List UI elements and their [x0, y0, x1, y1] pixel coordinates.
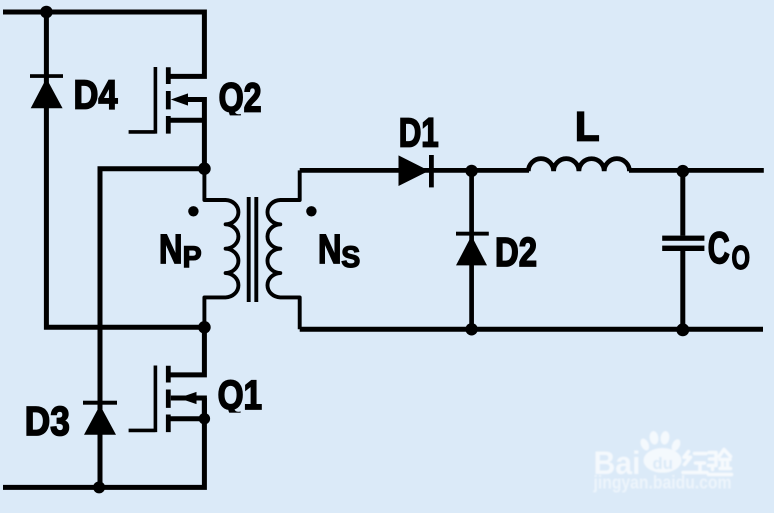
svg-text:D1: D1 — [399, 110, 439, 156]
svg-text:du: du — [653, 454, 674, 473]
svg-text:C: C — [708, 224, 730, 273]
svg-text:S: S — [341, 241, 360, 274]
svg-text:jingyan.baidu.com: jingyan.baidu.com — [593, 472, 732, 493]
svg-text:N: N — [159, 226, 183, 272]
svg-text:Q2: Q2 — [219, 75, 262, 121]
svg-text:L: L — [575, 104, 600, 150]
svg-text:D3: D3 — [25, 398, 70, 444]
svg-text:O: O — [732, 239, 751, 276]
svg-text:D4: D4 — [74, 71, 118, 117]
svg-text:N: N — [318, 226, 342, 272]
svg-text:Q1: Q1 — [218, 372, 263, 418]
svg-text:P: P — [183, 241, 202, 274]
svg-text:D2: D2 — [495, 229, 537, 275]
